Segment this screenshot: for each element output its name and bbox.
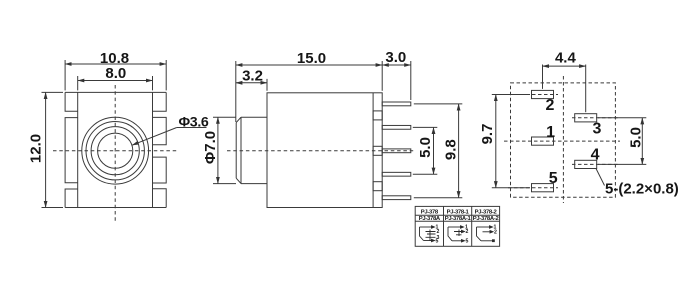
svg-text:12.0: 12.0 — [27, 134, 44, 163]
svg-text:5: 5 — [436, 238, 439, 244]
right tab top — [153, 92, 167, 111]
svg-text:5-(2.2×0.8): 5-(2.2×0.8) — [605, 180, 679, 197]
symbol PJ-378-1 switch bar — [458, 230, 460, 237]
side horizontal centerline — [227, 150, 416, 152]
left tab middle — [65, 118, 78, 183]
dim 4.4 ext lines — [542, 65, 544, 89]
right tab upper middle — [153, 117, 167, 144]
svg-text:9.7: 9.7 — [479, 124, 496, 145]
leader d3.6 underline — [177, 127, 207, 129]
dim 10.8 line — [65, 63, 166, 65]
svg-text:PJ-378-2: PJ-378-2 — [475, 209, 498, 215]
pad 1 — [532, 137, 554, 145]
dim 8.0 ext lines — [77, 76, 79, 90]
symbol PJ-378-1 sleeve line — [452, 240, 462, 242]
svg-text:5.0: 5.0 — [417, 137, 434, 158]
barrel chamfer bottom — [236, 178, 241, 183]
jack outer circle — [82, 117, 149, 184]
pad 5 — [532, 184, 554, 192]
front horizontal centerline — [53, 150, 178, 152]
dim 15.0 ext right — [381, 61, 383, 91]
svg-text:9.8: 9.8 — [443, 139, 460, 160]
svg-text:PJ-378: PJ-378 — [421, 209, 439, 215]
footprint vertical centerline — [562, 76, 564, 203]
barrel bottom edge — [241, 183, 267, 185]
pin 2 side — [382, 125, 411, 129]
footprint dashed outline — [511, 83, 616, 197]
dim 9.8 ext lines — [414, 103, 463, 105]
dim d7.0 ext lines — [213, 116, 236, 118]
jack circle 2 — [86, 122, 144, 180]
symbol PJ-378 tip line — [420, 226, 432, 228]
lug between pins 4-5 — [373, 182, 382, 191]
right tab bottom — [153, 189, 167, 208]
symbol PJ-378-2 ring line — [483, 231, 491, 233]
svg-text:2: 2 — [466, 229, 469, 235]
dim 5.0 side line — [433, 127, 435, 174]
svg-text:1: 1 — [546, 124, 555, 141]
leader d3.6 diagonal — [132, 128, 177, 146]
dim 12.0 ext lines — [42, 91, 64, 93]
svg-text:PJ-378A: PJ-378A — [419, 216, 441, 222]
table outline — [415, 206, 499, 246]
dim d7.0 line — [217, 117, 219, 183]
front body top edge — [65, 91, 166, 93]
front vertical centerline — [114, 85, 116, 222]
svg-text:PJ-378A-2: PJ-378A-2 — [473, 216, 500, 222]
symbol PJ-378-1 contact lines — [454, 232, 462, 235]
svg-text:5: 5 — [549, 170, 558, 187]
symbol PJ-378-2 tip line — [477, 226, 490, 228]
dim 3.0 ext right — [410, 61, 412, 100]
pad 3 row centerline — [572, 117, 620, 119]
pad 2 row centerline — [508, 94, 558, 96]
jack hole circle d3.6 — [98, 133, 133, 168]
svg-text:4: 4 — [591, 147, 600, 164]
dim 5.0 right ext lines — [598, 117, 646, 119]
svg-text:5.0: 5.0 — [627, 127, 644, 148]
pad 5 row centerline — [508, 187, 558, 189]
symbol PJ-378-2 sleeve line — [481, 240, 492, 242]
pin 1 side — [382, 102, 411, 106]
left tab top — [65, 92, 78, 111]
pad 3 — [575, 114, 597, 122]
dim 9.7 ext lines — [492, 94, 530, 96]
symbol PJ-378-1 left drop — [448, 227, 452, 241]
table row line 2 — [415, 220, 499, 222]
front body right edge — [152, 92, 154, 207]
svg-text:PJ-378A-1: PJ-378A-1 — [445, 216, 472, 222]
front body bottom edge — [65, 207, 166, 209]
dim 3.2 ext right — [266, 79, 268, 91]
table column line 2 — [471, 206, 473, 246]
lug between pins 1-2 — [373, 111, 382, 120]
svg-text:2: 2 — [494, 229, 497, 235]
barrel chamfer edge line — [240, 117, 242, 183]
left tab bottom — [65, 189, 78, 208]
pad 4 — [575, 160, 597, 168]
jack circle 3 — [91, 127, 139, 175]
table column line 1 — [443, 206, 445, 246]
dim 3.2 line — [236, 82, 267, 84]
dim 5.0 right line — [641, 118, 643, 165]
dim 3.2 ext left shared — [235, 61, 237, 122]
barrel chamfer top — [236, 117, 241, 122]
front body left edge — [77, 92, 79, 207]
symbol PJ-378 left drop — [420, 227, 424, 241]
barrel top edge — [241, 116, 267, 118]
pad 4 row centerline — [572, 163, 620, 165]
dim 9.8 line — [458, 104, 460, 198]
barrel front face — [235, 123, 237, 179]
svg-text:15.0: 15.0 — [297, 50, 326, 67]
svg-text:8.0: 8.0 — [105, 65, 126, 82]
svg-text:5: 5 — [466, 238, 469, 244]
dim 8.0 line — [78, 80, 153, 82]
symbol PJ-378 contact lines — [426, 232, 436, 238]
svg-text:4.4: 4.4 — [555, 49, 577, 66]
symbol PJ-378 switch bar — [429, 230, 431, 242]
dim 5.0 side ext lines — [413, 126, 438, 128]
pin 5 side — [382, 196, 411, 200]
pin 3 side — [382, 149, 411, 153]
pad 1 row centerline — [504, 140, 620, 142]
symbol PJ-378-1 tip line — [448, 226, 461, 228]
svg-text:3.2: 3.2 — [242, 67, 263, 84]
symbol PJ-378-2 left drop — [477, 227, 482, 241]
svg-text:2: 2 — [546, 97, 555, 114]
lug at pin 3 — [373, 146, 382, 155]
pin 4 side — [382, 172, 411, 176]
side body inner right wall line — [372, 93, 374, 208]
leader pad size — [596, 169, 605, 186]
dim 9.7 line — [495, 95, 497, 188]
svg-text:PJ-378-1: PJ-378-1 — [447, 209, 470, 215]
right tab lower middle — [153, 157, 167, 183]
svg-text:Φ7.0: Φ7.0 — [202, 131, 219, 164]
dim 12.0 line — [45, 92, 47, 207]
svg-text:Φ3.6: Φ3.6 — [179, 114, 209, 130]
dim 3.0 line — [382, 64, 411, 66]
dim 15.0 line — [236, 64, 382, 66]
table row line 1 — [415, 214, 499, 216]
pad 2 — [532, 90, 554, 98]
symbol PJ-378 sleeve line — [424, 240, 432, 242]
side body outline — [267, 93, 382, 208]
svg-text:3.0: 3.0 — [385, 49, 406, 66]
dim 4.4 line — [543, 65, 586, 67]
dim 10.8 ext lines — [64, 60, 66, 90]
svg-text:3: 3 — [593, 120, 602, 137]
